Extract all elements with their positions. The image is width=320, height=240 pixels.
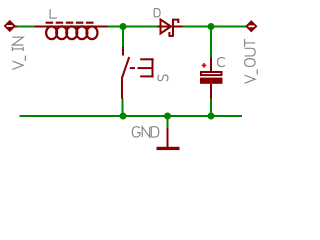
label V_IN (rotated stroke text) bbox=[12, 37, 25, 69]
junction B (top of capacitor) bbox=[208, 23, 215, 30]
label L bbox=[50, 9, 57, 18]
label S bbox=[158, 75, 168, 81]
wire GND stub bbox=[167, 116, 169, 129]
label V_OUT (rotated stroke text) bbox=[245, 39, 258, 83]
junction D (ground tap) bbox=[164, 113, 171, 120]
wire capacitor to junction E bbox=[210, 98, 212, 117]
label C bbox=[218, 58, 225, 67]
switch S bbox=[122, 47, 154, 99]
port V_OUT diamond bbox=[246, 21, 256, 31]
wire inductor to junction A bbox=[108, 26, 124, 28]
inductor L coil loops bbox=[46, 26, 97, 39]
junction C (bottom of switch) bbox=[120, 113, 127, 120]
wire junction B down to capacitor bbox=[210, 27, 212, 59]
label D bbox=[154, 9, 160, 17]
inductor L core dashes bbox=[46, 22, 94, 24]
capacitor plus sign bbox=[202, 63, 207, 68]
ground symbol bbox=[157, 128, 180, 150]
wire top-left segment bbox=[17, 26, 36, 28]
wire junction B to V_OUT port bbox=[211, 26, 247, 28]
junction A (top of switch) bbox=[120, 23, 127, 30]
label GND (stroke text) bbox=[132, 127, 158, 137]
capacitor C (polarized) bbox=[200, 58, 223, 99]
wire diode to junction B bbox=[182, 26, 212, 28]
junction E (bottom of capacitor) bbox=[208, 113, 215, 120]
port V_IN diamond bbox=[5, 21, 17, 31]
wire junction A down to switch bbox=[122, 27, 124, 48]
inductor L body line bbox=[35, 26, 109, 28]
wire junction A to diode bbox=[123, 26, 157, 28]
wire switch to junction C bbox=[122, 98, 124, 116]
wire bottom rail bbox=[20, 115, 243, 117]
diode D (Schottky) bbox=[157, 20, 183, 36]
